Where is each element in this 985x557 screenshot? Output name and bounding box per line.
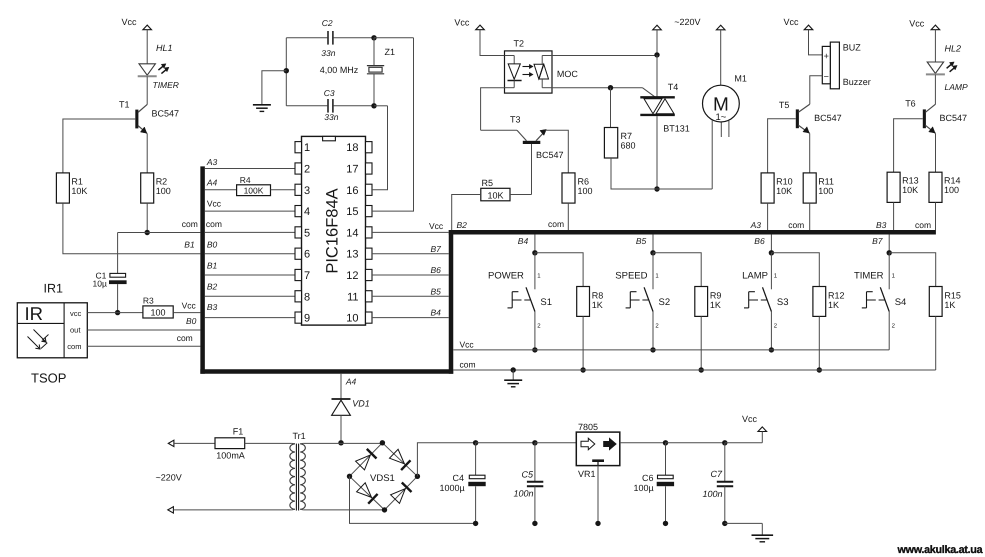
LED HL2 [927, 62, 943, 73]
wire R8 to com rail [582, 316, 584, 370]
svg-text:+: + [824, 51, 829, 61]
svg-text:com: com [177, 333, 193, 343]
svg-text:7805: 7805 [578, 422, 598, 432]
svg-text:1~: 1~ [715, 112, 726, 123]
svg-text:HL2: HL2 [945, 43, 962, 53]
svg-text:Z1: Z1 [385, 47, 396, 57]
ground [504, 379, 522, 381]
svg-text:100: 100 [578, 186, 593, 196]
wire bus to pin4 (Vcc) [205, 210, 295, 212]
junction C3/Z1 [371, 103, 376, 108]
wire T3 base to R5 [531, 144, 533, 195]
junction S2/Vcc rail [650, 347, 655, 352]
svg-text:Tr1: Tr1 [293, 431, 306, 441]
optocoupler internal LED [505, 55, 515, 57]
wire R15 to com rail [935, 316, 937, 370]
wire branch to R8 [535, 253, 583, 287]
junction VR1 ground [595, 521, 600, 526]
svg-text:14: 14 [346, 227, 358, 239]
svg-text:1K: 1K [710, 300, 721, 310]
wire R11 to bus (com) [809, 203, 811, 230]
svg-text:100: 100 [156, 186, 171, 196]
svg-text:10K: 10K [902, 185, 918, 195]
LED HL1 [139, 64, 155, 75]
wire secondary bottom to bridge [300, 508, 303, 511]
bus right vertical [449, 230, 454, 374]
wire bus to pin7 (B1) [205, 274, 295, 276]
svg-text:16: 16 [346, 185, 358, 197]
svg-text:100: 100 [150, 308, 165, 318]
svg-text:com: com [206, 219, 222, 229]
resistor R7 680 [610, 88, 612, 128]
junction C4 bottom [473, 521, 478, 526]
junction T2/220V [654, 52, 659, 57]
wire LED to T1 collector [146, 76, 148, 104]
svg-text:5: 5 [304, 227, 310, 239]
input terminal arrow [168, 507, 174, 513]
svg-text:R7: R7 [621, 131, 633, 141]
svg-text:C6: C6 [642, 473, 654, 483]
wire bus to pin5 (com) [205, 231, 295, 233]
svg-text:POWER: POWER [488, 271, 524, 282]
resistor R15 1K [929, 287, 942, 317]
wire R12 to com rail [818, 316, 820, 370]
svg-text:VR1: VR1 [578, 469, 596, 479]
svg-text:2: 2 [304, 164, 310, 176]
wire branch to R9 [653, 253, 701, 287]
resistor R11 [803, 173, 816, 203]
svg-text:1K: 1K [828, 300, 839, 310]
svg-text:12: 12 [346, 270, 358, 282]
wire pin12 to bus (B6) [372, 274, 449, 276]
svg-text:33n: 33n [321, 48, 335, 58]
resistor R2 [141, 173, 154, 203]
svg-text:T6: T6 [905, 99, 916, 109]
wire Z1 node to pin16 riser [374, 105, 388, 107]
switch S4 TIMER [888, 253, 890, 289]
svg-text:Vcc: Vcc [182, 300, 197, 310]
svg-text:LAMP: LAMP [742, 271, 768, 282]
switch S1 POWER [534, 253, 536, 289]
svg-text:IR1: IR1 [44, 281, 64, 295]
svg-text:10K: 10K [776, 186, 792, 196]
svg-text:com: com [788, 220, 804, 230]
wire R2 to com node [146, 203, 148, 232]
svg-text:M1: M1 [734, 74, 747, 84]
junction B5 [650, 250, 655, 255]
buzzer BUZ [830, 42, 839, 89]
wire bus to R4 [205, 189, 237, 191]
svg-text:C3: C3 [324, 88, 335, 98]
optocoupler light arrows [523, 66, 531, 68]
wire bus to S2 [652, 234, 654, 252]
wire input to transformer [173, 509, 291, 511]
svg-text:T4: T4 [668, 82, 679, 92]
junction B6 [769, 250, 774, 255]
junction B4 [532, 250, 537, 255]
junction triac bottom [654, 186, 659, 191]
wire T5 emitter to R11 [809, 133, 811, 173]
svg-text:R11: R11 [818, 176, 834, 186]
wire IR vcc to R3 [87, 312, 143, 314]
transistor T5 BC547 [796, 109, 799, 128]
svg-text:S1: S1 [540, 297, 552, 308]
svg-text:10K: 10K [487, 190, 503, 200]
wire Vcc to buzzer + [809, 30, 823, 55]
wire to Vcc output [725, 442, 763, 444]
svg-text:7: 7 [304, 270, 310, 282]
resistor R8 1K [577, 287, 590, 317]
svg-text:B1: B1 [184, 240, 195, 250]
svg-text:8: 8 [304, 291, 310, 303]
wire S2 to Vcc rail [652, 312, 654, 350]
wire bus to S4 [888, 234, 890, 252]
svg-text:VD1: VD1 [352, 398, 370, 408]
wire regulator out [620, 442, 666, 444]
svg-text:R13: R13 [902, 176, 919, 186]
svg-text:13: 13 [346, 249, 358, 261]
svg-text:HL1: HL1 [156, 43, 173, 53]
svg-text:R15: R15 [944, 290, 961, 300]
svg-text:BC547: BC547 [152, 109, 180, 119]
svg-text:Vcc: Vcc [784, 17, 800, 27]
wire bus to pin6 (B0) [205, 253, 295, 255]
svg-text:BT131: BT131 [663, 123, 690, 133]
wire to ground [262, 71, 286, 105]
svg-text:T3: T3 [510, 114, 521, 124]
junction C5 bottom [532, 521, 537, 526]
wire T6 emitter to R14 [935, 133, 937, 172]
wire branch to R12 [771, 253, 819, 287]
svg-text:A3: A3 [750, 220, 762, 230]
wire R3 to bus (Vcc) [173, 312, 200, 314]
capacitor C7 100n [724, 443, 726, 481]
resistor R13 [887, 172, 900, 202]
bus left vertical [200, 166, 205, 373]
svg-text:10K: 10K [71, 186, 87, 196]
wire bus A4 to VD1 [340, 374, 342, 399]
svg-text:100K: 100K [244, 186, 264, 196]
resistor R1 [56, 173, 69, 203]
junction S3/Vcc rail [769, 347, 774, 352]
wire bus to pin2 (A3) [205, 168, 295, 170]
capacitor C4 1000u [475, 443, 477, 475]
wire pin11 to bus (B5) [372, 295, 449, 297]
wire T2 cathode to T3 collector [481, 88, 505, 131]
wire bottom R7-motor [611, 188, 713, 190]
svg-text:Vcc: Vcc [909, 19, 925, 29]
wire IR com to bus [87, 345, 200, 347]
svg-text:vcc: vcc [70, 309, 82, 318]
wire bridge + to top rail [417, 443, 475, 477]
transistor T6 BC547 [923, 109, 926, 128]
svg-text:−: − [824, 71, 829, 81]
wire R14 to bus (com) [935, 202, 937, 230]
ground [253, 104, 271, 106]
transistor T1 BC547 [135, 110, 138, 129]
wire T3 emitter to R6 [546, 130, 569, 173]
svg-text:com: com [548, 219, 564, 229]
optocoupler internal triac [541, 56, 543, 65]
svg-text:9: 9 [304, 313, 310, 325]
junction C1/vcc wire [115, 310, 120, 315]
wire bus to S3 [770, 234, 772, 252]
svg-text:6: 6 [304, 249, 310, 261]
svg-text:com: com [67, 342, 81, 351]
svg-text:18: 18 [346, 142, 358, 154]
svg-text:Vcc: Vcc [742, 414, 758, 424]
ground [752, 534, 774, 536]
optocoupler T2 MOC [505, 51, 553, 93]
resistor R9 1K [695, 287, 708, 317]
svg-text:Buzzer: Buzzer [843, 77, 871, 87]
wire 220V to triac [656, 30, 658, 55]
triac T4 BT131 [640, 96, 675, 98]
junction C7 top [722, 440, 727, 445]
wire Vcc to LED HL2 [934, 30, 936, 62]
svg-text:R1: R1 [71, 176, 83, 186]
svg-text:B1: B1 [207, 261, 218, 271]
svg-text:R10: R10 [776, 176, 793, 186]
svg-text:15: 15 [346, 206, 358, 218]
bus top horizontal [449, 230, 936, 235]
resistor R5 10K [481, 188, 510, 201]
svg-text:100: 100 [944, 185, 959, 195]
op-amp U1 PIC16F84A microcontroller [302, 136, 366, 325]
svg-text:B4: B4 [518, 236, 529, 246]
svg-text:com: com [182, 219, 198, 229]
junction C5 top [532, 440, 537, 445]
svg-text:680: 680 [621, 141, 636, 151]
svg-text:IR: IR [25, 303, 44, 324]
wire S1 to Vcc rail [534, 312, 536, 350]
wire secondary top to bridge [300, 442, 303, 444]
svg-text:R3: R3 [143, 296, 154, 306]
wire gate diagonal [642, 88, 655, 98]
svg-text:com: com [915, 220, 931, 230]
wire R9 to com rail [700, 316, 702, 370]
wire pin14 to bus (Vcc) [372, 231, 449, 233]
svg-text:VDS1: VDS1 [370, 473, 395, 484]
svg-text:C7: C7 [711, 469, 723, 479]
svg-text:B4: B4 [431, 307, 442, 317]
svg-text:C2: C2 [322, 18, 333, 28]
svg-text:BC547: BC547 [814, 113, 842, 123]
svg-text:R9: R9 [710, 290, 722, 300]
svg-text:100n: 100n [703, 489, 723, 499]
svg-text:A4: A4 [206, 178, 218, 188]
svg-text:TSOP: TSOP [31, 371, 66, 386]
svg-text:C5: C5 [522, 469, 534, 479]
wire com to bus [118, 232, 201, 234]
svg-text:R14: R14 [944, 176, 961, 186]
svg-text:100mA: 100mA [216, 450, 245, 460]
wire pin13 to bus (B7) [372, 253, 449, 255]
svg-text:T2: T2 [514, 39, 525, 49]
svg-text:F1: F1 [233, 427, 244, 437]
input terminal arrow [168, 440, 174, 446]
junction C6 top [663, 440, 668, 445]
svg-text:B3: B3 [207, 302, 218, 312]
svg-text:R4: R4 [240, 175, 251, 185]
wire Vcc rail [453, 349, 889, 351]
wire top rail C6-C7 [666, 442, 725, 444]
wire Z1 node to pin15 riser [374, 37, 414, 39]
svg-text:www.akulka.at.ua: www.akulka.at.ua [897, 544, 984, 556]
wire motor to bottom node [711, 120, 713, 189]
svg-text:B7: B7 [872, 236, 883, 246]
svg-text:BC547: BC547 [536, 150, 564, 160]
svg-text:100n: 100n [514, 489, 534, 499]
fuse F1 100mA [215, 438, 245, 449]
svg-text:Vcc: Vcc [429, 221, 444, 231]
svg-text:B2: B2 [207, 282, 218, 292]
wire R6 to bus (com) [567, 203, 569, 230]
svg-text:LAMP: LAMP [945, 82, 968, 92]
wire S4 to Vcc rail [888, 312, 890, 350]
svg-text:R5: R5 [482, 178, 494, 188]
svg-text:R12: R12 [828, 290, 845, 300]
wire R5 to bus (B2) [452, 195, 481, 231]
wire VD1 to rectifier output [340, 415, 342, 443]
svg-text:S2: S2 [659, 297, 671, 308]
svg-text:3: 3 [304, 185, 310, 197]
wire bridge - to bottom rail [350, 476, 476, 523]
svg-text:SPEED: SPEED [615, 271, 647, 282]
svg-text:11: 11 [347, 291, 358, 303]
junction C4 top [473, 440, 478, 445]
wire input to fuse F1 [174, 442, 215, 444]
wire IR out to bus (B0) [87, 329, 200, 331]
capacitor C6 100u [665, 443, 667, 475]
wire top rail C4-C5 [476, 442, 535, 444]
svg-text:10µ: 10µ [93, 279, 107, 289]
wire T5 base to R10 [768, 119, 796, 173]
wire pin15 to crystal C2 node [372, 38, 414, 211]
wire buzzer - to T5 collector [810, 76, 823, 105]
svg-text:R8: R8 [592, 290, 604, 300]
svg-text:~220V: ~220V [156, 473, 182, 483]
svg-text:BC547: BC547 [940, 113, 968, 123]
switch S2 SPEED [652, 253, 654, 289]
wire C3 to Z1 bottom node [334, 105, 374, 107]
wire R13 to bus (B3) [893, 202, 895, 230]
svg-text:1: 1 [304, 142, 310, 154]
junction C2/Z1 [371, 35, 376, 40]
svg-text:1K: 1K [944, 300, 955, 310]
svg-text:MOC: MOC [557, 69, 578, 79]
capacitor C1 10u [117, 233, 119, 274]
switch S3 LAMP [770, 253, 772, 289]
svg-text:A3: A3 [206, 157, 218, 167]
svg-text:1000µ: 1000µ [440, 483, 465, 493]
junction R9/com rail [699, 367, 704, 372]
svg-text:Vcc: Vcc [460, 339, 475, 349]
bus bottom horizontal [200, 369, 453, 374]
wire C5 to regulator [535, 442, 576, 444]
resistor R10 [761, 173, 774, 203]
wire C2 to Z1 node [334, 37, 374, 39]
junction R8/com rail [580, 367, 585, 372]
wire triac to bottom node [656, 116, 658, 189]
wire Vcc to T2 [480, 30, 505, 56]
wire regulator to bottom rail [597, 466, 599, 524]
junction S1/Vcc rail [532, 347, 537, 352]
crystal Z1 [373, 38, 375, 66]
svg-text:4,00 MHz: 4,00 MHz [320, 65, 359, 75]
svg-text:1K: 1K [592, 300, 603, 310]
svg-text:17: 17 [346, 164, 358, 176]
svg-text:T5: T5 [779, 100, 790, 110]
wire R1 to bus node B1 [63, 203, 201, 254]
svg-text:B5: B5 [431, 286, 442, 296]
wire R4 to pin3 (A4) [271, 189, 296, 191]
wire left vertical C2-C3 [285, 38, 287, 106]
wire to ground [512, 370, 514, 380]
svg-text:100: 100 [818, 186, 833, 196]
wire T1 emitter to R2 [146, 134, 148, 173]
svg-text:T1: T1 [119, 100, 130, 110]
svg-text:TIMER: TIMER [153, 80, 179, 90]
svg-text:B7: B7 [431, 244, 442, 254]
wire pin10 to bus (B4) [372, 317, 449, 319]
svg-text:PIC16F84A: PIC16F84A [324, 188, 342, 273]
svg-text:~220V: ~220V [674, 17, 700, 27]
junction ground branch [284, 68, 289, 73]
junction R2/com [145, 230, 150, 235]
bridge rectifier VDS1 [350, 443, 383, 477]
wire T1 base to R1 [63, 119, 135, 173]
resistor R6 100 [562, 173, 575, 203]
svg-text:33n: 33n [324, 112, 338, 122]
svg-text:B3: B3 [876, 220, 887, 230]
wire bus to S1 [534, 234, 536, 252]
svg-text:B2: B2 [457, 220, 468, 230]
wire LED to T6 collector [934, 75, 936, 105]
svg-text:BUZ: BUZ [843, 42, 862, 52]
svg-text:R2: R2 [156, 176, 168, 186]
capacitor C5 100n [534, 443, 536, 481]
svg-text:Vcc: Vcc [122, 17, 138, 27]
svg-text:C4: C4 [453, 473, 465, 483]
resistor R4 100K [237, 185, 271, 196]
svg-text:4: 4 [304, 206, 310, 218]
svg-text:A4: A4 [345, 377, 357, 387]
svg-text:B0: B0 [186, 316, 197, 326]
junction VD1/top rail [338, 440, 343, 445]
svg-text:B6: B6 [431, 265, 442, 275]
svg-text:B5: B5 [636, 236, 647, 246]
diode VD1 [332, 398, 351, 400]
wire R10 to bus (A3) [767, 203, 769, 230]
wire bus to pin9 (B3) [205, 317, 295, 319]
motor M1 [716, 25, 725, 30]
transistor T3 BC547 [481, 129, 517, 131]
resistor R12 1K [813, 287, 826, 317]
wire F1 to transformer [245, 442, 292, 444]
wire T6 base to R13 [894, 119, 923, 172]
wire T2 to 220V node [552, 55, 657, 57]
svg-text:out: out [70, 326, 81, 335]
svg-text:S4: S4 [895, 297, 907, 308]
svg-text:Vcc: Vcc [454, 18, 470, 28]
svg-text:B6: B6 [754, 236, 765, 246]
wire branch to R15 [889, 253, 936, 287]
voltage regulator VR1 7805 [576, 432, 620, 466]
wire S3 to Vcc rail [770, 312, 772, 350]
capacitor C2 33n [286, 37, 327, 39]
svg-text:100µ: 100µ [634, 483, 654, 493]
